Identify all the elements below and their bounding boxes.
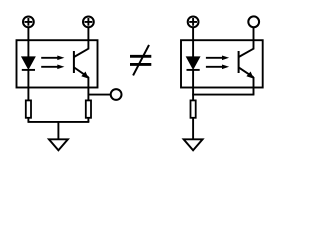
optocoupler U1 package outline (left) <box>17 40 98 87</box>
wire: ground stem (right) <box>192 118 194 140</box>
wire: LED cathode down to resistor (right) <box>192 70 194 101</box>
power supply +V (left circuit, LED side) <box>23 17 34 28</box>
wire: output terminal down to collector <box>253 28 255 50</box>
light emission arrows (right optocoupler) <box>206 56 229 70</box>
optocoupler U2 package outline (right) <box>181 40 263 87</box>
wire: ground stem (left) <box>57 122 59 140</box>
wire: R1 bottom stub <box>27 118 29 122</box>
resistor R2 (left, emitter side) <box>86 100 91 117</box>
wire: right +V down to LED anode <box>192 28 194 58</box>
power supply +V (left circuit, collector side) <box>83 17 94 28</box>
resistor R1 (left, LED side) <box>26 100 31 117</box>
wire: emitter down (right) <box>253 77 255 95</box>
phototransistor Q1 (left optocoupler) <box>74 49 89 79</box>
light emission arrows (left optocoupler) <box>41 56 64 70</box>
wire: emitter down through output tee to resistor <box>87 77 89 100</box>
wire: left +V down to phototransistor collector <box>87 28 89 50</box>
wire: R2 bottom stub <box>87 118 89 122</box>
ground symbol (right circuit) <box>184 139 203 150</box>
LED D2 (right optocoupler) <box>187 57 200 70</box>
ground symbol (left circuit) <box>49 139 68 150</box>
power supply +V (right circuit, LED side) <box>188 17 199 28</box>
wire: bottom rail joining R1 and R2 <box>28 121 90 123</box>
LED D1 (left optocoupler) <box>22 57 35 70</box>
output terminal (left circuit, open circle) <box>111 89 122 100</box>
wire: emitter return rail to LED cathode node <box>192 94 254 96</box>
wire: output branch to terminal <box>88 94 110 96</box>
output terminal (right circuit, open circle at top) <box>248 16 259 27</box>
wire: LED cathode down to resistor <box>27 70 29 101</box>
phototransistor Q2 (right optocoupler) <box>239 49 254 79</box>
resistor R3 (right) <box>191 100 196 117</box>
not-equal sign <box>130 45 151 76</box>
wire: left +V down to LED anode <box>27 28 29 58</box>
